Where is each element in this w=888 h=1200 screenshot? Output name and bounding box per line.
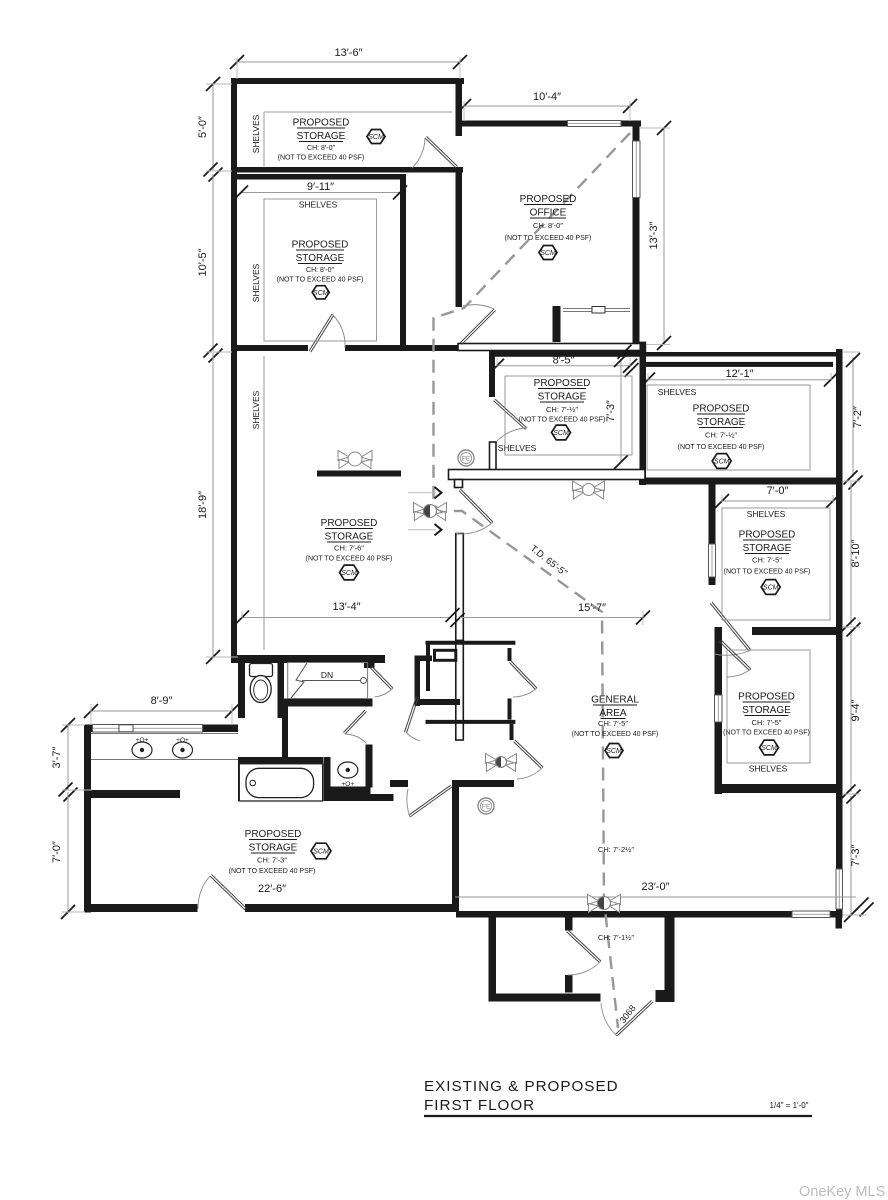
svg-text:DN: DN (321, 670, 333, 680)
exit door 3068 (601, 1000, 653, 1036)
dim 15-7 (460, 617, 643, 619)
hall left wall (282, 699, 288, 760)
corridor right wall (415, 656, 421, 707)
tub room left wall (238, 757, 245, 801)
toilet (250, 664, 273, 703)
room F left wall cap (709, 577, 716, 585)
svg-text:STORAGE: STORAGE (743, 543, 792, 554)
shelf rect room G (727, 650, 810, 763)
hall door lower (407, 785, 452, 817)
exit door jamb (656, 990, 665, 1002)
vestibule right wall (665, 918, 675, 1003)
wall below wc sink (324, 787, 371, 795)
room E top wall (640, 362, 834, 367)
svg-text:10′-5″: 10′-5″ (197, 248, 209, 276)
fire extinguisher FE upper (458, 450, 474, 466)
room H bottom wall (231, 655, 385, 663)
room D left wall stub (489, 351, 495, 397)
svg-text:+O+: +O+ (176, 737, 189, 744)
door room B (309, 314, 345, 352)
right exterior wall (836, 349, 843, 918)
window right wall lower (836, 869, 843, 909)
scm symbol room E (712, 454, 731, 469)
svg-text:EXISTING & PROPOSED: EXISTING & PROPOSED (424, 1078, 619, 1095)
svg-text:10′-4″: 10′-4″ (533, 91, 561, 103)
central wall outlined at closets (456, 641, 464, 741)
svg-text:PROPOSED: PROPOSED (739, 530, 796, 541)
room G labels (738, 692, 795, 703)
svg-text:23′-0″: 23′-0″ (642, 881, 670, 893)
svg-text:SHELVES: SHELVES (251, 390, 261, 429)
closet walls (426, 642, 516, 740)
hall right wall lower (366, 745, 373, 788)
bottom wall right of door (245, 904, 456, 912)
svg-text:8′-5″: 8′-5″ (553, 355, 575, 367)
svg-text:CH: 8′-0″: CH: 8′-0″ (307, 145, 335, 152)
sink 2 (173, 742, 193, 758)
room D top wall (495, 351, 640, 357)
window office top (568, 121, 622, 127)
room D left wall bottom stub (490, 442, 497, 471)
shelf line room A (264, 111, 452, 113)
svg-text:SCM: SCM (606, 748, 622, 755)
corridor bottom wall (420, 699, 460, 705)
svg-text:7′-0″: 7′-0″ (767, 485, 789, 497)
svg-text:SHELVES: SHELVES (747, 509, 786, 519)
room E left wall (640, 352, 647, 485)
svg-text:SCM: SCM (761, 745, 777, 752)
shelf rect room F (722, 508, 830, 620)
room H labels (321, 518, 378, 529)
office labels (520, 194, 577, 205)
svg-text:SCM: SCM (368, 134, 384, 141)
room I labels (245, 829, 302, 840)
svg-text:(NOT TO EXCEED 40 PSF): (NOT TO EXCEED 40 PSF) (724, 569, 811, 576)
scm symbol office (539, 245, 557, 259)
svg-text:22′-6″: 22′-6″ (258, 883, 286, 895)
toilet nook left wall (238, 661, 245, 718)
svg-text:12′-1″: 12′-1″ (726, 368, 754, 380)
central wall outlined upper (456, 534, 464, 641)
hall wall right (452, 780, 514, 787)
svg-text:SCM: SCM (540, 250, 556, 257)
dim 7-0 room F (722, 500, 833, 502)
svg-text:FE: FE (482, 804, 491, 811)
svg-text:PROPOSED: PROPOSED (321, 518, 378, 529)
svg-text:9′-11″: 9′-11″ (307, 181, 334, 193)
room B right wall (400, 174, 406, 351)
svg-text:SHELVES: SHELVES (749, 764, 788, 774)
central wall bottom stub (452, 780, 459, 911)
scm symbol room F (761, 580, 780, 595)
svg-text:STORAGE: STORAGE (742, 705, 791, 716)
dim 3-7 (67, 725, 69, 790)
room D labels (534, 378, 591, 389)
svg-text:(NOT TO EXCEED 40 PSF): (NOT TO EXCEED 40 PSF) (278, 155, 365, 162)
svg-text:STORAGE: STORAGE (297, 131, 346, 142)
stair door (370, 666, 393, 697)
hall right wall top stub (366, 699, 373, 707)
vestibule inner door (566, 930, 601, 975)
door general to hall (456, 489, 493, 534)
svg-text:CH: 7′-6″: CH: 7′-6″ (334, 544, 364, 553)
svg-text:1/4″ = 1′-0″: 1/4″ = 1′-0″ (770, 1101, 809, 1110)
bathroom top wall (84, 725, 238, 733)
svg-text:PROPOSED: PROPOSED (292, 240, 349, 251)
scm symbol room G (760, 740, 779, 755)
wc sink (338, 762, 358, 778)
svg-text:18′-9″: 18′-9″ (197, 491, 209, 519)
dim 9-11 (241, 192, 400, 194)
svg-text:STORAGE: STORAGE (296, 253, 345, 264)
vanity counter (91, 734, 238, 760)
svg-text:STORAGE: STORAGE (697, 417, 746, 428)
svg-text:15′-7″: 15′-7″ (578, 602, 606, 614)
svg-text:CH: 7′-5″: CH: 7′-5″ (752, 718, 782, 727)
svg-text:7′-2″: 7′-2″ (852, 406, 864, 428)
bathroom bottom wall (324, 794, 394, 801)
window detail square (119, 725, 133, 732)
exhaust fan closet hall (486, 754, 517, 772)
scm symbol room B (312, 286, 329, 299)
svg-text:(NOT TO EXCEED 40 PSF): (NOT TO EXCEED 40 PSF) (306, 556, 393, 563)
exhaust fan hall opening (414, 503, 447, 521)
hall wall left (390, 780, 408, 787)
svg-text:FE: FE (462, 456, 471, 463)
wall post at general area door (455, 480, 463, 488)
svg-text:3′-7″: 3′-7″ (51, 746, 63, 768)
shelf rect room B (264, 199, 377, 341)
left exterior wall upper (231, 78, 237, 663)
window room G left (715, 695, 723, 722)
svg-text:CH: 8′-0″: CH: 8′-0″ (533, 221, 563, 230)
stairs DN (288, 663, 368, 699)
toilet nook right wall (278, 661, 285, 718)
extension guide lines (62, 57, 866, 915)
svg-text:5′-0″: 5′-0″ (197, 116, 209, 138)
bathtub (239, 764, 322, 801)
room G bottom wall (715, 784, 837, 793)
dim 9-4 (850, 629, 852, 792)
svg-text:STORAGE: STORAGE (538, 392, 587, 403)
office shelf line (563, 307, 630, 314)
door room D (494, 399, 527, 441)
svg-text:13′-4″: 13′-4″ (333, 601, 361, 613)
svg-text:(NOT TO EXCEED 40 PSF): (NOT TO EXCEED 40 PSF) (572, 731, 659, 738)
vestibule bottom wall (489, 994, 601, 1002)
dim 7-3 right (850, 796, 852, 915)
room A bottom wall (231, 167, 463, 173)
dim 7-3 room D (620, 360, 622, 462)
travel distance dashed path (434, 133, 631, 1028)
dim 13-3 (663, 128, 665, 343)
scm symbol room D (552, 425, 571, 440)
svg-text:7′-0″: 7′-0″ (51, 841, 63, 863)
svg-text:STORAGE: STORAGE (325, 532, 374, 543)
vestibule partition upper (565, 918, 573, 931)
svg-text:SHELVES: SHELVES (251, 114, 261, 153)
room G left wall lower (715, 722, 723, 794)
svg-text:(NOT TO EXCEED 40 PSF): (NOT TO EXCEED 40 PSF) (505, 235, 592, 242)
room A label PROPOSED (293, 118, 350, 129)
office right wall (633, 121, 640, 348)
dim 8-10 (850, 482, 852, 625)
window bathroom top (93, 725, 203, 733)
room B top wall (231, 174, 406, 180)
svg-text:CH: 7′-½″: CH: 7′-½″ (546, 405, 578, 414)
door closet to general (513, 740, 543, 779)
door office (460, 305, 496, 345)
bottom right corner leg (836, 918, 843, 929)
dim 13-4 (242, 617, 451, 619)
room G top wall left corner (715, 627, 723, 635)
tub room top wall (238, 757, 323, 764)
svg-text:9′-4″: 9′-4″ (850, 699, 862, 721)
shelf line room H (263, 356, 265, 650)
svg-text:+O+: +O+ (341, 781, 354, 788)
office top wall (459, 121, 641, 127)
dim 18-9 (212, 353, 214, 657)
svg-text:(NOT TO EXCEED 40 PSF): (NOT TO EXCEED 40 PSF) (277, 277, 364, 284)
svg-text:PROPOSED: PROPOSED (293, 118, 350, 129)
dim 23-0 (455, 896, 856, 898)
svg-text:13′-3″: 13′-3″ (648, 221, 660, 249)
central wall (office left) (456, 170, 463, 307)
svg-text:SHELVES: SHELVES (498, 443, 537, 453)
dim 13-6 (237, 61, 460, 63)
svg-text:SCM: SCM (553, 430, 569, 437)
svg-text:CH: 7′-5″: CH: 7′-5″ (752, 556, 782, 565)
dim 8-9 (91, 710, 232, 712)
svg-text:PROPOSED: PROPOSED (534, 378, 591, 389)
closet door right (509, 661, 537, 697)
fire extinguisher FE lower (478, 798, 494, 814)
svg-text:(NOT TO EXCEED 40 PSF): (NOT TO EXCEED 40 PSF) (723, 730, 810, 737)
svg-text:CH: 7′-3″: CH: 7′-3″ (257, 856, 287, 865)
door room F (710, 602, 751, 655)
vestibule left wall (489, 918, 497, 1002)
dim 10-4 (464, 105, 630, 107)
svg-text:SHELVES: SHELVES (251, 263, 261, 302)
central wall upper (room A right) (456, 78, 463, 136)
ceiling fan general area (573, 481, 605, 499)
wall below room D (449, 470, 646, 480)
svg-text:FIRST FLOOR: FIRST FLOOR (424, 1097, 535, 1114)
vestibule partition lower (565, 975, 573, 993)
svg-text:CH: 7′-2½″: CH: 7′-2½″ (598, 845, 635, 854)
door room A (412, 136, 458, 168)
svg-text:SCM: SCM (313, 290, 329, 297)
svg-text:PROPOSED: PROPOSED (693, 404, 750, 415)
svg-text:7′-3″: 7′-3″ (850, 844, 862, 866)
window bottom wall (792, 911, 830, 918)
dim 12-1 (648, 379, 831, 381)
corridor wall bridge (415, 656, 433, 662)
window office right (633, 141, 641, 198)
dim 7-0 left (67, 792, 69, 912)
dim 8-5 (497, 365, 630, 367)
right wing top exterior wall (641, 352, 842, 357)
shelf bar room H (317, 471, 401, 477)
svg-text:OFFICE: OFFICE (530, 208, 567, 219)
stair door jamb notch (364, 662, 375, 668)
svg-text:(NOT TO EXCEED 40 PSF): (NOT TO EXCEED 40 PSF) (519, 417, 606, 424)
svg-text:8′-10″: 8′-10″ (850, 539, 862, 567)
svg-text:SCM: SCM (763, 585, 779, 592)
shelf rect room D (505, 376, 632, 455)
fan room H (338, 451, 372, 469)
door room I (198, 874, 247, 910)
office closet stub wall (553, 306, 561, 342)
room G left wall upper (715, 634, 723, 695)
hall door mid (343, 710, 366, 744)
svg-text:+O+: +O+ (136, 737, 149, 744)
general area labels (591, 695, 639, 706)
svg-text:AREA: AREA (599, 708, 627, 719)
office bottom wall (458, 344, 641, 351)
svg-text:PROPOSED: PROPOSED (520, 194, 577, 205)
door room G (719, 640, 751, 677)
scm symbol room A (367, 129, 385, 143)
room E bottom wall (639, 478, 842, 485)
svg-text:SCM: SCM (341, 570, 357, 577)
svg-text:7′-3″: 7′-3″ (605, 400, 617, 422)
room G top wall (752, 627, 836, 635)
svg-text:SCM: SCM (714, 459, 730, 466)
svg-text:CH: 7′-½″: CH: 7′-½″ (705, 431, 737, 440)
svg-text:PROPOSED: PROPOSED (738, 692, 795, 703)
tub room right wall (324, 757, 331, 789)
svg-text:OneKey MLS: OneKey MLS (799, 1184, 885, 1200)
svg-text:STORAGE: STORAGE (249, 843, 298, 854)
sink 1 (132, 742, 152, 758)
room B bottom wall left (231, 345, 308, 351)
window room F left (709, 544, 716, 577)
svg-text:SHELVES: SHELVES (658, 387, 697, 397)
scm symbol general area (605, 743, 623, 757)
dim 5-0 (212, 84, 214, 170)
svg-text:(NOT TO EXCEED 40 PSF): (NOT TO EXCEED 40 PSF) (678, 444, 765, 451)
arrow markers hall opening (408, 487, 442, 535)
room B bottom wall right (345, 345, 463, 351)
svg-text:13′-6″: 13′-6″ (335, 47, 363, 59)
svg-text:PROPOSED: PROPOSED (245, 829, 302, 840)
svg-text:CH: 8′-0″: CH: 8′-0″ (306, 267, 334, 274)
bottom wall left of door (84, 904, 198, 912)
svg-text:CH: 7′-1½″: CH: 7′-1½″ (598, 933, 635, 942)
scm symbol room I (311, 843, 331, 859)
title text (424, 1078, 812, 1116)
svg-text:SHELVES: SHELVES (299, 200, 338, 210)
wall below stairs (282, 699, 368, 707)
svg-text:GENERAL: GENERAL (591, 695, 639, 706)
dim 7-2 (852, 357, 854, 477)
title underline (424, 1115, 812, 1117)
dim 10-5 (212, 174, 214, 351)
main bottom exterior wall (456, 911, 842, 918)
room F left wall upper (709, 484, 716, 545)
svg-text:8′-9″: 8′-9″ (151, 695, 173, 707)
bathroom mid wall (91, 790, 180, 798)
svg-text:SCM: SCM (313, 849, 329, 856)
room A top wall (231, 78, 464, 84)
exhaust fan entry (588, 895, 621, 913)
svg-text:(NOT TO EXCEED 40 PSF): (NOT TO EXCEED 40 PSF) (229, 868, 316, 875)
shelf rect room E (647, 385, 810, 470)
closet door left (404, 696, 420, 741)
wall connector office to right wing (640, 342, 647, 356)
scm symbol room H (340, 565, 359, 580)
svg-text:CH: 7′-5″: CH: 7′-5″ (598, 719, 628, 728)
room B label PROPOSED (292, 240, 349, 251)
left exterior wall lower (84, 725, 91, 913)
